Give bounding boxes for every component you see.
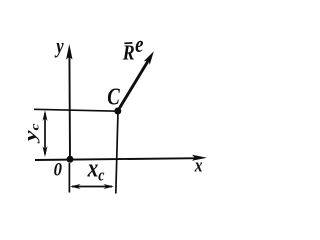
- label R: [122, 42, 135, 65]
- label y: [55, 35, 64, 59]
- label O: [54, 159, 62, 180]
- svg-text:C: C: [107, 83, 120, 110]
- label x_c: [87, 155, 105, 185]
- origin dot: [67, 156, 74, 163]
- dimension x_c right arrowhead: [104, 184, 115, 189]
- label C: [107, 83, 120, 110]
- point C dot: [114, 108, 121, 115]
- x-axis: [35, 158, 199, 160]
- label x: [194, 155, 203, 176]
- rectangle top line: [34, 109, 118, 111]
- svg-text:0: 0: [54, 159, 62, 180]
- svg-text:e: e: [135, 31, 144, 58]
- dimension y_c arrow line: [44, 113, 46, 154]
- y-axis arrowhead: [66, 44, 72, 60]
- svg-text:yc: yc: [20, 123, 42, 144]
- vector Re arrowhead: [144, 51, 154, 65]
- label y_c rotated: [20, 123, 42, 144]
- label e superscript: [135, 31, 144, 58]
- dimension x_c arrow line: [72, 186, 112, 188]
- vector Re shaft: [118, 60, 149, 110]
- label R overbar: [124, 42, 132, 44]
- y-axis: [68, 50, 71, 160]
- rectangle right line: [116, 111, 118, 194]
- dimension y_c bottom arrowhead: [43, 146, 48, 157]
- svg-text:R: R: [122, 42, 135, 65]
- x-axis arrowhead: [192, 155, 207, 161]
- dimension x_c left extension line: [68, 163, 70, 193]
- dimension y_c top arrowhead: [43, 110, 48, 121]
- dimension x_c left arrowhead: [70, 184, 81, 189]
- svg-text:x: x: [194, 155, 203, 176]
- svg-text:y: y: [55, 35, 64, 59]
